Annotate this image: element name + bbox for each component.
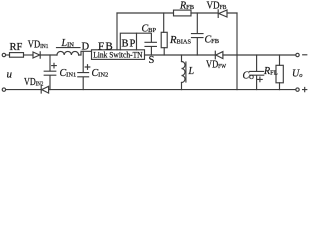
- IC U1 LinkSwitch-TN box: [92, 50, 145, 60]
- resistor R_BIAS: [161, 32, 167, 47]
- svg-text:RFB: RFB: [179, 1, 195, 12]
- svg-text:BP: BP: [122, 39, 137, 50]
- svg-text:RF: RF: [10, 42, 23, 53]
- svg-text:CFB: CFB: [205, 35, 220, 46]
- inductor L lead top: [181, 55, 183, 62]
- svg-text:CIN1: CIN1: [60, 68, 77, 79]
- top feedback wire: [117, 12, 237, 14]
- resistor RF: [10, 53, 24, 58]
- resistor R_FL: [276, 65, 283, 83]
- wire step up to D pin: [79, 51, 92, 55]
- core bar L_IN: [57, 47, 81, 49]
- svg-text:FB: FB: [98, 41, 114, 53]
- svg-text:CIN2: CIN2: [92, 68, 109, 79]
- capacitor C_O: [250, 71, 264, 89]
- diode VD_IN2: [41, 86, 48, 93]
- capacitor C_FB: [192, 34, 204, 55]
- BP pin tab box: [120, 33, 136, 50]
- svg-text:RBIAS: RBIAS: [169, 35, 191, 46]
- svg-text:CO: CO: [243, 71, 255, 82]
- svg-text:Uo: Uo: [292, 69, 303, 80]
- svg-text:LIN: LIN: [61, 38, 75, 49]
- source rail S: [145, 54, 238, 56]
- capacitor C_IN2: [78, 73, 89, 90]
- input terminal bottom-left: [2, 88, 5, 91]
- diode VD_FW: [215, 51, 223, 59]
- wire RF to VD_IN1: [24, 54, 34, 56]
- plus sign C_IN1: [52, 63, 57, 68]
- right junction column: [236, 13, 238, 90]
- wire BP to C_BP: [137, 33, 152, 42]
- wire VD_IN1 to L_IN: [40, 54, 57, 56]
- svg-text:D: D: [82, 41, 90, 52]
- minus sign output: [303, 54, 307, 56]
- svg-text:u: u: [7, 68, 13, 80]
- svg-text:CBP: CBP: [142, 24, 157, 35]
- bottom rail: [49, 89, 296, 91]
- wire C_FB top: [196, 13, 198, 33]
- inductor L_IN: [57, 51, 79, 55]
- wire terminal to RF: [6, 54, 10, 56]
- inductor L lead bottom: [181, 83, 183, 90]
- node C_IN2 tap: [82, 51, 84, 72]
- bottom rail left: [6, 89, 41, 91]
- plus sign output: [303, 88, 307, 92]
- resistor R_FB: [174, 10, 192, 16]
- core bar L: [185, 62, 187, 82]
- capacitor C_BP: [145, 42, 156, 55]
- wire R_FL bottom: [279, 83, 281, 90]
- capacitor C_IN1: [44, 71, 56, 89]
- inductor L coil: [182, 62, 186, 83]
- FB pin wire: [116, 13, 118, 50]
- svg-text:VDFW: VDFW: [206, 60, 227, 71]
- svg-text:VDFB: VDFB: [207, 1, 228, 12]
- diode VD_IN1: [33, 52, 40, 58]
- wire R_BIAS bottom: [163, 48, 165, 55]
- plus sign C_IN2: [85, 65, 90, 70]
- wire C_O tap: [256, 55, 258, 71]
- wire R_BIAS top: [163, 13, 165, 32]
- plus sign C_O: [258, 77, 263, 82]
- svg-text:VDIN1: VDIN1: [28, 40, 49, 51]
- output terminal top-right: [296, 53, 299, 56]
- input terminal top-left: [2, 53, 5, 56]
- svg-text:S: S: [149, 55, 155, 66]
- svg-text:L: L: [188, 66, 195, 77]
- wire R_FL top: [279, 55, 281, 65]
- output rail top: [237, 54, 296, 56]
- output terminal bottom-right: [296, 88, 299, 91]
- svg-text:VDIN2: VDIN2: [24, 77, 43, 88]
- node C_IN1 tap: [49, 55, 51, 71]
- diode VD_FB: [218, 10, 227, 18]
